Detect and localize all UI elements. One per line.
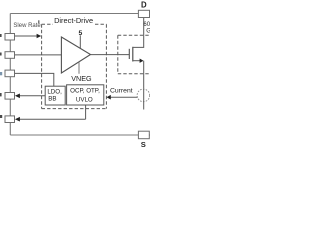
Direct-Drive dashed boundary top edge right segment: [95, 23, 106, 25]
pin box D: [138, 10, 149, 17]
svg-text:UVLO: UVLO: [76, 96, 93, 103]
transistor GaN FET drain lead: [133, 17, 144, 47]
wire LDO output to pin P4: [20, 95, 46, 97]
svg-text:Current: Current: [110, 88, 133, 95]
pin box P2: [5, 52, 15, 59]
svg-text:600 V: 600 V: [143, 22, 150, 28]
transistor GaN FET gate bar: [128, 49, 130, 59]
block OCP OTP UVLO: [67, 85, 104, 105]
block LDO BB: [45, 86, 65, 105]
package outline left edge: [9, 14, 11, 136]
package outline bottom edge: [10, 134, 139, 136]
Direct-Drive dashed boundary right edge: [105, 24, 107, 108]
wire 5V tap into driver top: [79, 35, 81, 48]
pin label fragment P5: [0, 115, 2, 118]
svg-text:BB: BB: [48, 95, 56, 102]
pin label fragment P1: [0, 34, 2, 37]
package outline top edge: [10, 13, 139, 15]
arrowhead into pin P5: [15, 117, 20, 122]
svg-text:S: S: [141, 140, 146, 149]
transistor GaN FET source lead: [133, 60, 140, 62]
riser UVLO box to VNEG rail: [85, 105, 87, 119]
Direct-Drive dashed boundary top edge left segment: [42, 23, 53, 25]
svg-text:OCP, OTP,: OCP, OTP,: [70, 87, 100, 94]
package outline top edge right stub: [149, 13, 152, 15]
wire current sink through circle: [143, 89, 145, 110]
svg-text:Direct-Drive: Direct-Drive: [54, 16, 93, 25]
package outline bottom edge right stub: [149, 134, 152, 136]
current source circle: [137, 89, 150, 102]
svg-text:GaN: GaN: [146, 28, 150, 34]
svg-text:VNEG: VNEG: [71, 74, 92, 83]
pin box P3: [5, 70, 15, 77]
wire VNEG tap below driver: [78, 62, 80, 74]
transistor GaN FET channel bar: [132, 47, 134, 62]
wire current sense to OCP block: [110, 96, 137, 98]
Direct-Drive dashed boundary bottom edge: [42, 108, 107, 110]
source arrowhead right: [140, 59, 144, 63]
pin box S: [138, 131, 149, 139]
op-amp gate driver triangle: [61, 37, 90, 73]
wire pin P2 to driver input: [15, 54, 62, 56]
wire source corner to current sink: [143, 61, 145, 89]
arrowhead into pin P4: [15, 94, 20, 99]
pin box P4: [5, 93, 15, 100]
pin label fragment P2: [0, 53, 2, 56]
tick after Slew Rate: [38, 20, 39, 23]
Direct-Drive dashed boundary left edge: [41, 24, 43, 108]
svg-text:Slew Rate: Slew Rate: [13, 23, 41, 29]
arrowhead into Direct-Drive boundary at OCP: [107, 95, 111, 100]
wire VNEG rail to pin P5: [20, 118, 86, 120]
pin box P5: [5, 116, 15, 123]
wire pin P3 into LDO block: [15, 73, 54, 86]
arrowhead into Direct-Drive boundary: [37, 34, 42, 39]
GaN FET dashed enclosure left edge: [117, 35, 119, 73]
pin box P1: [5, 34, 15, 41]
pin label fragment P3: [0, 72, 2, 75]
GaN FET dashed enclosure bottom edge: [118, 73, 151, 75]
wire driver output to GaN gate: [91, 54, 130, 56]
GaN FET dashed enclosure: [118, 34, 151, 36]
pin label fragment P4: [0, 93, 2, 96]
wire pin P1 slew-rate input: [15, 35, 37, 37]
svg-text:D: D: [141, 0, 147, 9]
